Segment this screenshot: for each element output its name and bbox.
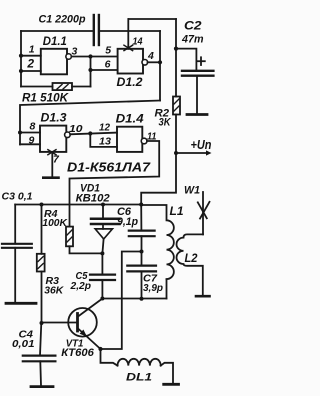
- wire +Un rail upper: [175, 19, 177, 97]
- wire left vertical to D1.1 inputs: [20, 31, 22, 87]
- junction C6 / C7 tap: [140, 250, 144, 254]
- ground under C3: [6, 302, 36, 305]
- wire D1.4 out to R4: [70, 141, 160, 227]
- gate D1.4: [117, 127, 142, 152]
- gate D1.1: [41, 49, 67, 75]
- wire C2 branch: [176, 49, 196, 71]
- junction pin4 / C1: [158, 60, 162, 64]
- wire pin14 stem: [127, 19, 129, 49]
- wire C6-C7 middle: [141, 236, 143, 265]
- gate D1.3: [40, 126, 66, 152]
- pin7 power mark: [48, 150, 56, 155]
- svg-text:C1 2200p: C1 2200p: [39, 14, 86, 26]
- wire C3 to ground: [14, 248, 16, 302]
- junction node / L1 / C6: [139, 203, 143, 207]
- wire pin2: [21, 70, 41, 72]
- wire vertical pin5/pin6 tap: [90, 57, 92, 87]
- svg-text:L2: L2: [185, 253, 199, 265]
- wire C4 to ground: [39, 361, 42, 385]
- ground under L2: [196, 295, 210, 298]
- transistor VT1 emitter: [78, 329, 101, 350]
- capacitor C5: [90, 275, 115, 280]
- svg-text:9,1p: 9,1p: [117, 216, 138, 228]
- +Un arrow: [176, 152, 206, 154]
- wire rail step to node: [141, 153, 176, 205]
- svg-text:C2: C2: [184, 21, 202, 33]
- wire +Un rail lower: [175, 115, 177, 154]
- resistor R1: [53, 83, 73, 90]
- wire VD1 to C5: [102, 239, 103, 253]
- resistor R4: [66, 227, 73, 247]
- wire pin1: [21, 55, 41, 57]
- inductor L1: [141, 205, 174, 279]
- capacitor C4: [23, 356, 56, 362]
- wire base node to C4: [40, 323, 41, 355]
- junction pin8 tap: [18, 131, 22, 135]
- svg-text:11: 11: [147, 131, 157, 143]
- svg-text:КТ606: КТ606: [61, 347, 94, 359]
- wire pin8: [20, 132, 40, 134]
- wire L1 bottom lead: [166, 279, 168, 298]
- svg-text:D1.4: D1.4: [116, 114, 145, 126]
- wire top rail: [129, 18, 176, 20]
- wire C5 to collector node: [101, 280, 103, 299]
- wire tuning node: [15, 204, 141, 206]
- svg-text:D1.1: D1.1: [43, 36, 67, 48]
- wire node to C3: [14, 205, 16, 244]
- capacitor C3: [2, 244, 32, 248]
- ground under C4: [31, 385, 53, 388]
- capacitor C2: [182, 71, 213, 76]
- svg-text:13: 13: [99, 136, 111, 148]
- junction C7 bottom: [140, 297, 144, 301]
- svg-text:3K: 3K: [159, 117, 172, 129]
- capacitor C1: [94, 15, 99, 45]
- junction pin10 / pin12 / pin13: [88, 131, 92, 135]
- svg-text:0,01: 0,01: [12, 338, 35, 350]
- junction emitter / tap / DL1: [98, 347, 102, 351]
- transistor VT1 circle: [68, 308, 97, 337]
- resistor R3: [37, 254, 45, 272]
- junction rail / C2: [174, 47, 178, 51]
- transistor VT1 base bar: [76, 314, 79, 332]
- wire collector horizontal: [102, 298, 166, 300]
- wire emitter node to DL1: [101, 349, 118, 366]
- capacitor C7: [127, 266, 156, 272]
- inductor DL1: [118, 359, 161, 366]
- varicap VD1 plates: [91, 219, 120, 224]
- junction pin1 tap: [19, 54, 23, 58]
- svg-text:36K: 36K: [44, 285, 64, 297]
- wire top to C1: [21, 30, 92, 32]
- wire C6 top: [140, 205, 142, 230]
- wire R4 to VD1 bottom: [70, 246, 103, 253]
- svg-text:W1: W1: [184, 185, 200, 197]
- wire DL1 to ground: [161, 363, 173, 383]
- svg-text:1: 1: [29, 44, 35, 56]
- junction VD1 top: [101, 203, 105, 207]
- pin14 power mark: [124, 45, 133, 50]
- svg-text:6: 6: [105, 59, 111, 71]
- svg-text:14: 14: [133, 36, 143, 48]
- svg-text:47m: 47m: [181, 34, 204, 46]
- svg-text:КВ102: КВ102: [76, 193, 110, 205]
- capacitor C2 plus sign: [197, 57, 205, 65]
- svg-text:DL1: DL1: [126, 372, 152, 384]
- svg-text:C3 0,1: C3 0,1: [2, 192, 33, 203]
- svg-text:2,2p: 2,2p: [70, 280, 92, 292]
- junction pin2 tap: [19, 69, 23, 73]
- junction pin6 tap: [88, 68, 92, 72]
- junction C5 bottom / collector: [100, 297, 104, 301]
- varicap VD1 triangle: [95, 229, 112, 239]
- wire feedback bottom left: [21, 86, 53, 88]
- svg-text:9: 9: [29, 135, 35, 147]
- wire tank tap to emitter: [101, 252, 142, 350]
- junction R3 bottom / base / C4: [40, 321, 44, 325]
- wire node to R3: [41, 205, 43, 254]
- wire D1.2 output pin4: [148, 61, 160, 63]
- junction +Un tap: [174, 151, 178, 155]
- wire D1.3 out to D1.4 pin12: [70, 133, 117, 135]
- svg-text:3: 3: [72, 46, 78, 58]
- gate D1.2: [118, 49, 143, 74]
- wire pin7 stem: [51, 153, 53, 177]
- wire to D1.3 inputs: [20, 101, 160, 145]
- wire R3 to base node: [41, 272, 43, 324]
- capacitor C6: [129, 231, 155, 237]
- junction R3 top: [40, 203, 44, 207]
- ground under pin7: [43, 176, 58, 179]
- svg-text:4: 4: [147, 50, 154, 62]
- ground under C2: [187, 113, 207, 116]
- antenna W1 lead: [202, 192, 204, 234]
- svg-text:10: 10: [69, 123, 83, 135]
- wire pin13 jog: [90, 134, 117, 147]
- wire C7 bottom: [141, 271, 143, 298]
- svg-text:3,9p: 3,9p: [143, 282, 164, 294]
- wire base: [42, 322, 77, 324]
- svg-text:12: 12: [99, 122, 110, 134]
- antenna W1 mark: [198, 202, 210, 219]
- wire pin9: [20, 143, 40, 145]
- svg-text:L1: L1: [170, 206, 184, 218]
- svg-text:D1-К561ЛА7: D1-К561ЛА7: [67, 161, 151, 175]
- wire C1 right: [99, 30, 160, 32]
- svg-text:2: 2: [26, 57, 34, 71]
- junction VD1 bottom / R4 / C5: [100, 251, 104, 255]
- svg-text:D1.2: D1.2: [117, 77, 144, 89]
- wire D1.1 output to D1.2 pin5: [71, 56, 117, 58]
- svg-text:D1.3: D1.3: [41, 113, 68, 125]
- ground after DL1: [164, 383, 179, 386]
- inductor L2: [177, 234, 204, 294]
- wire pin6: [91, 69, 118, 71]
- transistor VT1 collector: [78, 299, 102, 317]
- junction D1.1 out / pin5 / R1: [88, 54, 92, 58]
- svg-text:7: 7: [53, 154, 60, 166]
- wire feedback bottom right: [72, 86, 91, 88]
- varicap VD1 stem top: [102, 205, 104, 219]
- svg-text:R1 510K: R1 510K: [22, 93, 69, 105]
- svg-text:+Un: +Un: [191, 138, 212, 152]
- svg-text:5: 5: [105, 45, 111, 57]
- svg-text:100K: 100K: [42, 217, 68, 229]
- svg-text:8: 8: [30, 121, 36, 133]
- wire vertical pin4 net: [159, 31, 161, 101]
- wire C2 to ground: [196, 76, 198, 114]
- resistor R2: [173, 97, 180, 115]
